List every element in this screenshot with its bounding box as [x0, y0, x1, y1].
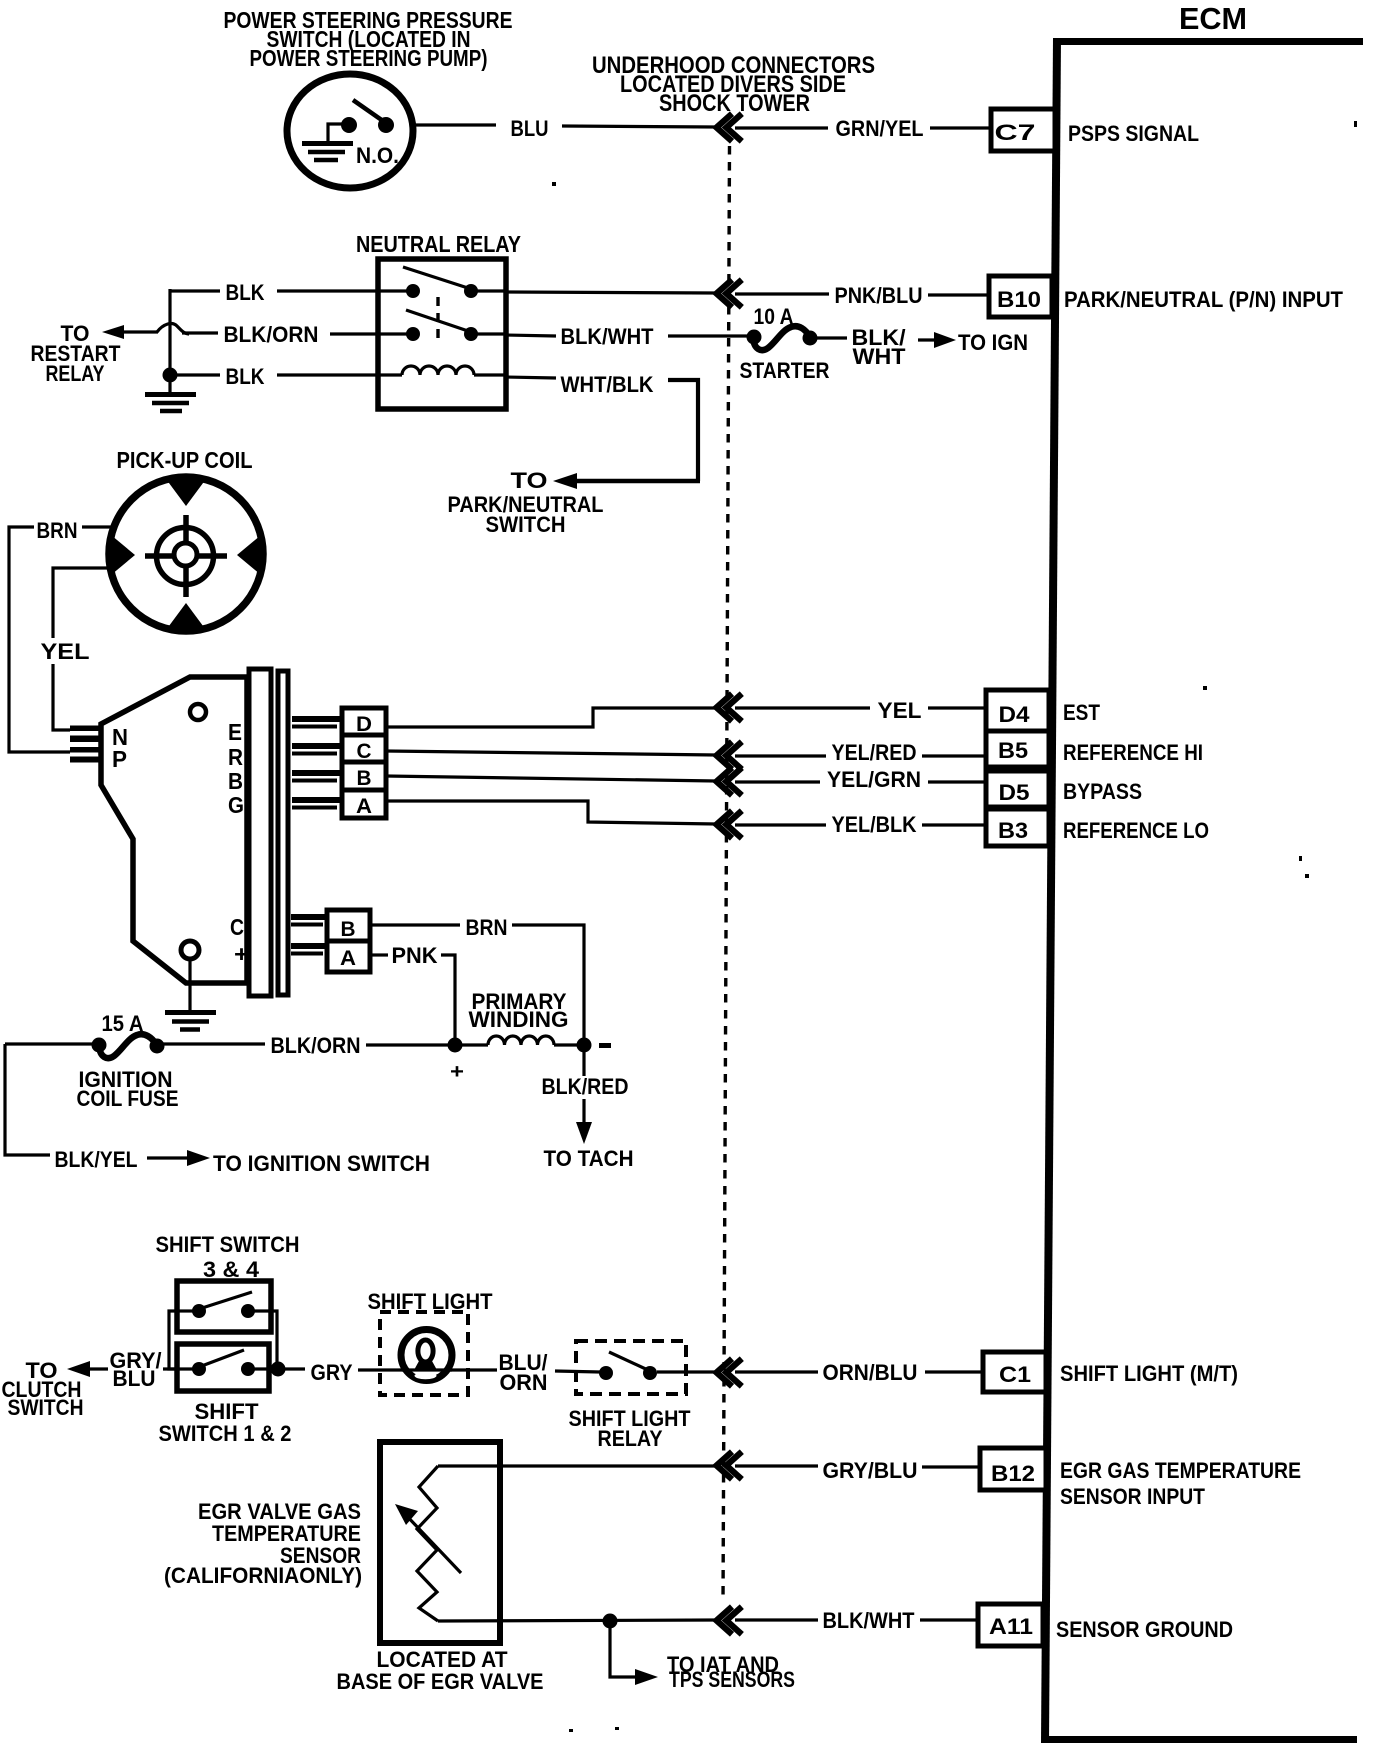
- svg-text:SENSOR INPUT: SENSOR INPUT: [1060, 1484, 1205, 1509]
- wire BLK to PNK/BLU: [506, 292, 716, 293]
- label BYPASS: [1063, 779, 1142, 804]
- label BLK/WHT starter: [852, 325, 907, 369]
- pick-up coil: [109, 477, 263, 631]
- wire PNK/BLU: [735, 283, 989, 308]
- junction node minus: [577, 1038, 592, 1053]
- wire BRN pick-up: [9, 518, 113, 752]
- svg-text:B: B: [357, 767, 372, 790]
- svg-text:COIL FUSE: COIL FUSE: [77, 1086, 179, 1111]
- svg-text:SHOCK TOWER: SHOCK TOWER: [659, 90, 810, 117]
- label IGNITION COIL FUSE: [77, 1067, 179, 1111]
- ground bus vertical: [168, 289, 171, 378]
- wire BLK/YEL: [5, 1044, 138, 1172]
- wire WHT/BLK: [506, 372, 698, 481]
- connector C1: [983, 1352, 1046, 1392]
- pin B: [292, 770, 345, 783]
- svg-text:PNK: PNK: [392, 943, 438, 968]
- wire GRY: [285, 1360, 404, 1385]
- wire PNK coil: [372, 943, 455, 1045]
- neutral relay coil: [378, 366, 506, 375]
- shift light relay dashed box: [576, 1341, 686, 1394]
- label SHIFT LIGHT RELAY: [569, 1406, 692, 1451]
- svg-text:EGR GAS TEMPERATURE: EGR GAS TEMPERATURE: [1060, 1458, 1301, 1483]
- label TO CLUTCH SWITCH: [2, 1358, 84, 1420]
- svg-text:BRN: BRN: [466, 915, 508, 940]
- power steering pressure switch: [287, 74, 413, 188]
- svg-text:PNK/BLU: PNK/BLU: [835, 283, 923, 308]
- neutral relay dashed link: [436, 297, 439, 341]
- svg-text:SWITCH: SWITCH: [8, 1395, 84, 1420]
- wire BLK/ORN: [182, 322, 378, 347]
- wire BLK bottom: [176, 364, 378, 389]
- label PSPS SIGNAL: [1068, 121, 1199, 146]
- connector symbol on BLK/WHT wire: [717, 1607, 742, 1635]
- thermistor arrow: [395, 1504, 461, 1573]
- svg-text:BLK/WHT: BLK/WHT: [561, 324, 655, 349]
- module screw hole bottom: [181, 941, 199, 959]
- wire BLU: [413, 116, 716, 141]
- connector symbol on GRY/BLU wire: [717, 1452, 742, 1480]
- connector symbol on bypass wire: [717, 768, 742, 796]
- shift light relay switch: [599, 1352, 716, 1380]
- wire YEL/BLK: [735, 812, 986, 837]
- svg-text:SHIFT SWITCH: SHIFT SWITCH: [156, 1232, 300, 1257]
- wire GRY/BLU egr: [735, 1458, 980, 1483]
- svg-text:SHIFT LIGHT (M/T): SHIFT LIGHT (M/T): [1060, 1361, 1238, 1386]
- wire BLK/WHT to starter fuse: [506, 324, 749, 349]
- svg-text:N.O.: N.O.: [356, 143, 399, 168]
- ECM label: [1179, 1, 1247, 36]
- svg-text:R: R: [228, 744, 243, 770]
- svg-text:GRY/BLU: GRY/BLU: [823, 1458, 918, 1483]
- pin C: [292, 743, 345, 756]
- thermistor zigzag: [417, 1466, 438, 1621]
- svg-text:A: A: [340, 947, 356, 970]
- svg-text:BLK/ORN: BLK/ORN: [271, 1033, 361, 1058]
- arrow to park/neutral switch: [553, 473, 700, 489]
- svg-text:WHT/BLK: WHT/BLK: [561, 372, 654, 397]
- svg-text:P: P: [112, 746, 127, 772]
- connector D5: [986, 771, 1049, 807]
- label EST: [1063, 700, 1100, 725]
- label PICK-UP COIL: [117, 447, 253, 473]
- ground symbol distributor: [165, 959, 216, 1030]
- svg-text:ORN: ORN: [500, 1370, 548, 1395]
- label PRIMARY WINDING: [469, 989, 569, 1032]
- label SHIFT SWITCH 1 & 2: [159, 1399, 292, 1446]
- svg-text:RELAY: RELAY: [598, 1426, 663, 1451]
- svg-text:TO TACH: TO TACH: [544, 1146, 634, 1171]
- svg-text:YEL: YEL: [41, 639, 90, 664]
- label C +: [230, 914, 249, 967]
- svg-text:BRN: BRN: [37, 518, 78, 543]
- wire YEL: [735, 698, 986, 723]
- svg-text:TO IGNITION SWITCH: TO IGNITION SWITCH: [213, 1151, 430, 1176]
- connector BA box: [327, 910, 370, 972]
- primary winding coil: [455, 1036, 584, 1045]
- svg-text:NEUTRAL RELAY: NEUTRAL RELAY: [356, 231, 521, 257]
- label TO TACH: [544, 1146, 634, 1171]
- connector symbol on ORN/BLU wire: [717, 1359, 742, 1387]
- module screw hole top: [190, 704, 206, 720]
- svg-text:TO: TO: [511, 468, 548, 493]
- svg-text:B3: B3: [998, 818, 1028, 843]
- svg-text:STARTER: STARTER: [740, 358, 830, 383]
- label E R B G: [228, 719, 244, 818]
- module plate 1: [249, 669, 271, 996]
- connector C7: [991, 109, 1055, 151]
- connector B12: [980, 1448, 1046, 1490]
- underhood connectors dashed line: [723, 146, 730, 1602]
- label LOCATED AT BASE OF EGR VALVE: [337, 1647, 544, 1694]
- label REFERENCE LO: [1063, 818, 1209, 843]
- svg-text:BASE OF EGR VALVE: BASE OF EGR VALVE: [337, 1669, 544, 1694]
- svg-text:PICK-UP COIL: PICK-UP COIL: [117, 447, 253, 473]
- svg-text:BLK: BLK: [226, 364, 265, 389]
- svg-text:B10: B10: [997, 287, 1041, 312]
- connector D4: [986, 690, 1049, 731]
- junction node plus: [448, 1038, 463, 1053]
- svg-text:A11: A11: [989, 1614, 1033, 1639]
- shift light dashed box: [380, 1312, 468, 1395]
- arrow to restart relay with hop: [102, 324, 189, 339]
- label 15 A: [102, 1011, 144, 1036]
- svg-text:TPS SENSORS: TPS SENSORS: [669, 1667, 795, 1692]
- module plate 2: [278, 671, 288, 995]
- wire BRN coil: [372, 915, 584, 1045]
- connector symbol on PSPS wire: [717, 114, 742, 142]
- label SHIFT LIGHT: [368, 1289, 494, 1314]
- label TO PARK/NEUTRAL SWITCH: [448, 468, 604, 537]
- connector DCBA box: [342, 708, 386, 818]
- connector symbol on reference lo wire: [717, 811, 742, 839]
- svg-text:ECM: ECM: [1179, 1, 1247, 36]
- pin D: [292, 716, 345, 729]
- connector symbol on reference hi wire: [717, 742, 742, 770]
- svg-text:POWER STEERING PUMP): POWER STEERING PUMP): [250, 45, 488, 71]
- svg-text:BLU: BLU: [113, 1366, 156, 1391]
- ground symbol left: [145, 378, 196, 411]
- svg-text:GRY: GRY: [311, 1360, 353, 1385]
- svg-text:PARK/NEUTRAL (P/N) INPUT: PARK/NEUTRAL (P/N) INPUT: [1064, 287, 1344, 312]
- svg-text:(CALIFORNIAONLY): (CALIFORNIAONLY): [164, 1563, 362, 1588]
- svg-text:C1: C1: [999, 1362, 1031, 1387]
- wire BLK/RED: [542, 1045, 629, 1144]
- wire YEL/GRN: [735, 767, 986, 792]
- wire YEL pick-up: [41, 568, 112, 730]
- svg-text:BLU: BLU: [511, 116, 549, 141]
- svg-text:BLK/RED: BLK/RED: [542, 1074, 629, 1099]
- connector B10: [989, 276, 1052, 317]
- svg-text:SWITCH: SWITCH: [486, 512, 566, 537]
- svg-text:G: G: [228, 792, 244, 818]
- label NEUTRAL RELAY: [356, 231, 521, 257]
- fuse IGNITION COIL: [5, 1034, 165, 1058]
- connector symbol on PNK/BLU wire: [717, 280, 742, 308]
- label TO IAT AND TPS SENSORS: [667, 1652, 795, 1692]
- label SHIFT SWITCH 3 & 4: [156, 1232, 300, 1282]
- wire ORN/BLU: [735, 1360, 983, 1385]
- shift switch 1 and 2 box: [163, 1344, 279, 1391]
- svg-text:BLK/ORN: BLK/ORN: [224, 322, 319, 347]
- svg-text:REFERENCE LO: REFERENCE LO: [1063, 818, 1209, 843]
- neutral relay top switch: [378, 267, 506, 298]
- svg-text:SWITCH 1 & 2: SWITCH 1 & 2: [159, 1421, 292, 1446]
- module pin P: [70, 747, 101, 763]
- connector symbol on EST wire: [717, 694, 742, 722]
- wire from pin B: [386, 776, 716, 781]
- neutral relay box: [378, 259, 506, 409]
- wire BLK top: [170, 280, 378, 305]
- label SHIFT LIGHT (M/T): [1060, 1361, 1238, 1386]
- wire from pin C: [386, 751, 716, 755]
- junction dot GRY: [271, 1362, 286, 1377]
- arrow TO IGN: [918, 330, 1028, 355]
- pin A: [292, 797, 345, 810]
- svg-text:C: C: [230, 914, 244, 940]
- svg-text:ORN/BLU: ORN/BLU: [823, 1360, 918, 1385]
- svg-text:BLK/YEL: BLK/YEL: [55, 1147, 138, 1172]
- svg-text:WINDING: WINDING: [469, 1007, 569, 1032]
- label minus: [599, 1043, 611, 1048]
- speck marks: [552, 121, 1357, 1732]
- ground in PSPS switch: [302, 124, 353, 160]
- right rail shift switches: [271, 1311, 277, 1369]
- svg-text:C: C: [357, 740, 372, 763]
- distributor module body: [101, 677, 247, 983]
- svg-text:RELAY: RELAY: [46, 361, 105, 386]
- ECM box outline: [1041, 38, 1363, 1743]
- svg-text:C7: C7: [995, 120, 1036, 145]
- EGR gas temperature sensor box: [380, 1442, 500, 1643]
- label plus: [450, 1061, 464, 1083]
- arrow to IAT and TPS sensors: [610, 1621, 658, 1685]
- label N P: [112, 724, 128, 772]
- label GRY/BLU: [110, 1348, 162, 1391]
- underhood connectors note: [592, 52, 875, 117]
- svg-text:D5: D5: [999, 780, 1030, 805]
- arrow to clutch switch: [67, 1361, 108, 1377]
- wire EGR top: [438, 1464, 716, 1467]
- svg-text:TO IGN: TO IGN: [958, 330, 1028, 355]
- wire EST from pin D: [386, 708, 716, 727]
- svg-text:YEL: YEL: [878, 698, 922, 723]
- svg-text:YEL/BLK: YEL/BLK: [832, 812, 917, 837]
- junction dot sensor ground: [603, 1614, 618, 1629]
- connector B5: [986, 731, 1049, 767]
- wire BLK/ORN: [159, 1033, 452, 1058]
- wire BLU/ORN: [450, 1350, 600, 1395]
- svg-text:SENSOR GROUND: SENSOR GROUND: [1056, 1617, 1233, 1642]
- svg-text:EST: EST: [1063, 700, 1100, 725]
- svg-text:B: B: [228, 768, 243, 794]
- label PARK/NEUTRAL (P/N) INPUT: [1064, 287, 1344, 312]
- svg-text:REFERENCE HI: REFERENCE HI: [1063, 740, 1203, 765]
- wire from pin A: [386, 801, 716, 824]
- shift light lamp: [401, 1330, 452, 1381]
- svg-text:E: E: [228, 719, 242, 745]
- svg-text:BYPASS: BYPASS: [1063, 779, 1142, 804]
- svg-text:B12: B12: [991, 1461, 1035, 1486]
- pin to coil A: [291, 943, 329, 956]
- module pin N: [70, 726, 101, 743]
- connector B3: [986, 809, 1049, 846]
- shift switch 3 and 4 box: [177, 1281, 271, 1332]
- pin to coil B: [291, 914, 329, 927]
- label 10 A: [754, 304, 794, 329]
- wire EGR bottom: [438, 1620, 716, 1621]
- connector A11: [978, 1604, 1043, 1646]
- power steering pressure switch label: [224, 7, 513, 71]
- wire GRN/YEL: [735, 116, 991, 141]
- svg-text:A: A: [356, 795, 372, 818]
- svg-text:BLK: BLK: [226, 280, 265, 305]
- svg-text:D: D: [356, 713, 372, 736]
- svg-text:PSPS SIGNAL: PSPS SIGNAL: [1068, 121, 1199, 146]
- svg-text:WHT: WHT: [853, 344, 907, 369]
- label N.O.: [356, 143, 399, 168]
- svg-text:BLK/WHT: BLK/WHT: [823, 1608, 916, 1633]
- svg-text:B5: B5: [998, 738, 1028, 763]
- svg-text:YEL/GRN: YEL/GRN: [827, 767, 921, 792]
- svg-text:B: B: [341, 918, 356, 941]
- left rail shift switches: [169, 1311, 177, 1369]
- fuse STARTER: [747, 326, 848, 350]
- label TO RESTART RELAY: [31, 321, 121, 386]
- wire BLK/WHT sensor ground: [735, 1608, 978, 1633]
- junction dot on ground bus: [163, 368, 178, 383]
- neutral relay bottom switch: [378, 310, 506, 341]
- svg-text:D4: D4: [999, 702, 1031, 727]
- svg-text:YEL/RED: YEL/RED: [832, 740, 917, 765]
- svg-text:GRN/YEL: GRN/YEL: [836, 116, 924, 141]
- label STARTER: [740, 358, 830, 383]
- label SENSOR GROUND: [1056, 1617, 1233, 1642]
- label REFERENCE HI: [1063, 740, 1203, 765]
- label EGR GAS TEMPERATURE SENSOR INPUT: [1060, 1458, 1301, 1509]
- arrow to ignition switch: [147, 1150, 430, 1176]
- svg-text:+: +: [450, 1061, 464, 1083]
- label EGR VALVE GAS TEMPERATURE SENSOR (CALIFORNIA ONLY): [164, 1499, 362, 1588]
- wire YEL/RED: [735, 740, 986, 765]
